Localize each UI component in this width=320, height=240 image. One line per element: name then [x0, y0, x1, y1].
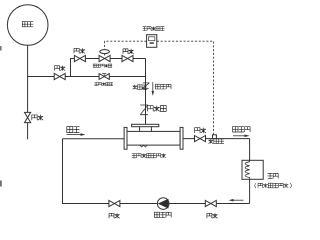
- radiator coil: [245, 160, 250, 179]
- wire left riser x=62.5: [62, 139, 64, 204]
- label 水温控制器: [143, 27, 165, 31]
- manual control valve 手动调节阀 body: [99, 74, 109, 80]
- wire main steam line y=76.5: [28, 76, 145, 78]
- flow arrow 采暖水 (right): [233, 135, 246, 137]
- label 循环泵: [154, 212, 171, 217]
- scan artifact left edge: [0, 46, 2, 51]
- label 闸阀 main: [55, 66, 66, 71]
- boiler drum 锅筒: [7, 5, 48, 46]
- label 闸阀 supply: [195, 128, 206, 133]
- check valve 止回阀 symbol: [140, 105, 148, 115]
- mixer body: [127, 131, 180, 145]
- mixer neck: [140, 127, 152, 132]
- label 手动调节阀: [94, 82, 113, 85]
- gate valve 闸阀 bypass-right: [122, 55, 133, 61]
- label 闸阀 top-left: [74, 48, 85, 53]
- sensor 传感器 box: [213, 135, 217, 139]
- label 闸阀 bottom-right: [207, 213, 218, 218]
- label 电动调节阀: [93, 64, 112, 67]
- gate valve 闸阀 bottom-right: [205, 200, 216, 206]
- label 闸阀 top-right: [123, 49, 134, 54]
- label 传感器: [208, 139, 224, 144]
- label 闸阀 stub: [32, 115, 43, 120]
- mixer left flange: [124, 127, 127, 149]
- wire right riser upper x=249.6: [249, 139, 251, 161]
- gate valve 闸阀 main line: [54, 73, 65, 79]
- wire bypass branch y=58: [71, 59, 146, 77]
- filter 过滤器 symbol: [142, 83, 149, 89]
- wire steam drop to mixer x=145: [145, 59, 147, 125]
- wire return inlet y=138.7: [63, 138, 125, 140]
- label 止回阀: [147, 106, 166, 112]
- wire dashed control right (controller to sensor): [157, 41, 214, 135]
- label 高温水: [155, 84, 171, 89]
- manual control valve handle: [102, 74, 106, 77]
- circulation pump 循环泵: [157, 198, 169, 210]
- mixer drain zigzag: [140, 145, 148, 147]
- wire dashed control left (controller to actuator): [105, 41, 147, 49]
- gate valve 闸阀 bottom-left: [109, 200, 120, 206]
- radiator 采暖 box: [242, 160, 263, 179]
- label boiler 锅筒: [22, 22, 33, 27]
- label 回水: [67, 127, 80, 133]
- wire right riser lower x=249.6: [249, 179, 251, 203]
- gate valve 闸阀 on boiler water stub (vertical): [25, 112, 31, 122]
- flow arrow 回水 (right): [67, 134, 82, 136]
- flow arrow bottom return (left): [233, 199, 244, 201]
- label 过滤器: [133, 85, 148, 90]
- label 汽水混合加热器: [132, 153, 166, 157]
- mixer right flange: [180, 127, 183, 149]
- electric control valve actuator: [104, 53, 106, 55]
- electric control valve 电动调节阀 body: [99, 55, 110, 61]
- mixer 汽水混合加热器 top flange plate: [132, 124, 159, 126]
- label 采暖: [268, 173, 279, 178]
- controller 水温控制器 box: [147, 35, 157, 48]
- label 采暖水: [233, 127, 251, 132]
- gate valve 闸阀 supply line: [195, 136, 206, 142]
- wire supply line y=138.6: [183, 138, 250, 140]
- label 闸阀 bottom-left: [109, 213, 120, 218]
- wire bottom return line y=204: [63, 203, 250, 205]
- wire boiler drop (x=27.6, y 45..139): [27, 45, 29, 139]
- flow arrow 高温水 (down): [152, 82, 154, 92]
- gate valve 闸阀 bypass-left: [74, 55, 85, 61]
- label （可接换热设备）: [255, 183, 292, 188]
